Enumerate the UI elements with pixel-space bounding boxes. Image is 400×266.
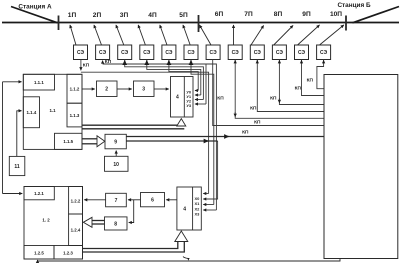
svg-text:6П: 6П [215, 11, 224, 18]
svg-text:Х2: Х2 [194, 206, 200, 211]
svg-text:Х1: Х1 [194, 201, 200, 206]
svg-text:СЭ: СЭ [210, 50, 218, 56]
svg-text:1.2.4: 1.2.4 [71, 228, 81, 233]
svg-text:1.1.3: 1.1.3 [70, 113, 80, 118]
svg-text:4П: 4П [148, 12, 157, 19]
svg-text:1.2.5: 1.2.5 [34, 251, 44, 256]
svg-text:СЭ: СЭ [276, 50, 284, 56]
svg-text:СЭ: СЭ [143, 50, 151, 56]
svg-text:У3: У3 [186, 103, 191, 108]
svg-text:КП: КП [270, 96, 277, 102]
svg-text:КП: КП [250, 106, 257, 112]
svg-text:СЭ: СЭ [298, 50, 306, 56]
svg-text:7П: 7П [244, 11, 253, 18]
svg-text:КП: КП [217, 96, 224, 102]
svg-text:6: 6 [151, 198, 154, 204]
svg-text:СЭ: СЭ [254, 50, 262, 56]
svg-text:1.1.4: 1.1.4 [27, 110, 37, 115]
svg-text:1.1.1: 1.1.1 [34, 80, 44, 85]
svg-text:1.2.2: 1.2.2 [71, 199, 81, 204]
svg-text:3: 3 [142, 87, 145, 93]
svg-text:2П: 2П [93, 12, 102, 19]
svg-text:КП: КП [83, 63, 90, 69]
svg-text:КП: КП [242, 130, 249, 136]
svg-text:СЭ: СЭ [121, 50, 129, 56]
svg-text:10: 10 [113, 162, 119, 168]
svg-text:СЭ: СЭ [77, 50, 85, 56]
svg-text:1П: 1П [68, 12, 77, 19]
svg-text:7: 7 [115, 198, 118, 204]
svg-text:11: 11 [14, 164, 20, 170]
svg-text:1.1: 1.1 [49, 108, 56, 113]
svg-text:КП: КП [295, 86, 302, 92]
svg-text:КП: КП [254, 119, 261, 125]
svg-text:Станция Б: Станция Б [337, 2, 371, 9]
svg-text:СЭ: СЭ [232, 50, 240, 56]
svg-text:1.2.1: 1.2.1 [34, 191, 44, 196]
svg-text:КП: КП [307, 78, 314, 84]
svg-text:СЭ: СЭ [187, 50, 195, 56]
svg-text:Х3: Х3 [194, 212, 200, 217]
svg-text:8: 8 [114, 222, 117, 228]
svg-text:3П: 3П [120, 12, 129, 19]
svg-text:5П: 5П [179, 12, 188, 19]
svg-text:СЭ: СЭ [320, 50, 328, 56]
svg-text:1.1.5: 1.1.5 [63, 139, 73, 144]
svg-text:1. 2: 1. 2 [42, 218, 50, 223]
svg-text:СЭ: СЭ [165, 50, 173, 56]
svg-text:1.1.2: 1.1.2 [70, 87, 80, 92]
svg-text:Станция А: Станция А [18, 4, 52, 11]
svg-text:8П: 8П [274, 11, 283, 18]
svg-text:9П: 9П [302, 11, 311, 18]
svg-text:Х0: Х0 [194, 196, 200, 201]
svg-text:4: 4 [183, 207, 186, 213]
svg-text:1.2.3: 1.2.3 [63, 251, 73, 256]
svg-text:4: 4 [176, 95, 179, 101]
svg-text:СЭ: СЭ [99, 50, 107, 56]
svg-text:2: 2 [105, 87, 108, 93]
svg-text:10П: 10П [330, 11, 342, 18]
svg-text:КП: КП [105, 59, 112, 65]
svg-text:9: 9 [114, 140, 117, 146]
